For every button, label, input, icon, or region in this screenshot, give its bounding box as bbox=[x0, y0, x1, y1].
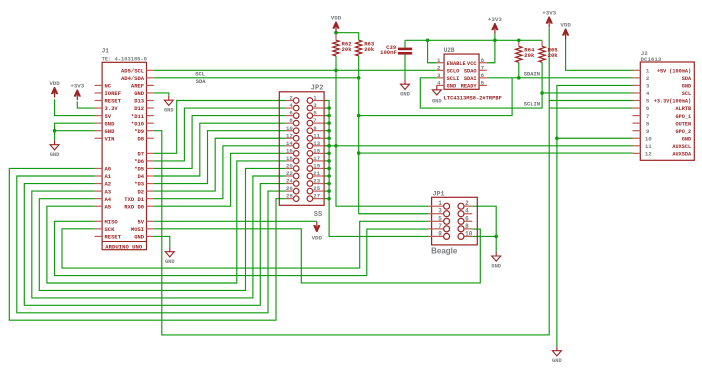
svg-text:AREF: AREF bbox=[131, 83, 144, 90]
svg-text:D7: D7 bbox=[137, 151, 144, 158]
svg-text:SCLIN: SCLIN bbox=[524, 102, 540, 108]
pin J2 3 GND bbox=[633, 84, 641, 86]
pin JP2 28 (left) bbox=[293, 196, 299, 202]
svg-text:DC1613: DC1613 bbox=[641, 56, 662, 63]
svg-text:7: 7 bbox=[438, 223, 442, 230]
svg-text:13: 13 bbox=[313, 140, 320, 147]
wire J1.D4 to JP2 pin8 bbox=[154, 123, 286, 176]
wire +3V3 rail C39 to R65 bbox=[405, 39, 542, 41]
resistor R65 20k bbox=[539, 46, 545, 62]
connector J2 (DC1613) bbox=[640, 62, 694, 160]
junction GND pin10 bbox=[555, 136, 559, 140]
wire J1.D3 to JP2 pin10 bbox=[154, 131, 286, 184]
svg-text:3: 3 bbox=[438, 208, 442, 215]
wire JP2 pin3 to bus bbox=[324, 107, 329, 109]
pin J2 12 AUXSDA bbox=[633, 152, 641, 154]
svg-text:JP2: JP2 bbox=[311, 85, 324, 93]
svg-text:GPO_2: GPO_2 bbox=[676, 129, 692, 135]
svg-text:VDD: VDD bbox=[49, 80, 60, 87]
pin JP2 20 (left) bbox=[293, 166, 299, 172]
svg-text:3: 3 bbox=[646, 83, 650, 90]
svg-text:100nF: 100nF bbox=[380, 49, 397, 56]
pin J1 AREF (right) bbox=[147, 84, 154, 86]
junction VCC rail bbox=[493, 39, 497, 43]
svg-text:VDD: VDD bbox=[560, 22, 571, 29]
svg-text:SCLI: SCLI bbox=[447, 76, 460, 82]
pin J1 MOSI (right) bbox=[147, 228, 154, 230]
wire J1 bottom GND pin to ground bbox=[154, 236, 170, 247]
svg-text:D4: D4 bbox=[137, 173, 144, 180]
wire SCLI loop to R65 bbox=[420, 62, 542, 108]
wire ENABLE to +3V3 bbox=[428, 40, 437, 62]
junction bus row 11 bbox=[327, 136, 331, 140]
wire J1 AREF-side GND pin to ground bbox=[154, 93, 169, 96]
power VDD (J2) bbox=[563, 29, 569, 36]
svg-text:20k: 20k bbox=[364, 46, 375, 53]
wire SCL down to JP1 pin1 bbox=[336, 70, 428, 206]
pin JP2 11 (right) bbox=[307, 135, 313, 141]
pin J1 VIN (left) bbox=[95, 137, 103, 139]
wire JP2 bus to JP1 pin9 bbox=[324, 101, 428, 237]
resistor R62 20k bbox=[333, 40, 339, 56]
ground (U2B pin4) bbox=[436, 85, 438, 89]
wire JP1 pin2 to ground bbox=[472, 206, 496, 251]
pin JP1 1 (left) bbox=[444, 203, 450, 209]
svg-text:AUXSDA: AUXSDA bbox=[672, 152, 692, 158]
svg-text:SDAI: SDAI bbox=[464, 76, 477, 82]
junction SCL / R62 bbox=[334, 69, 338, 73]
svg-text:8: 8 bbox=[289, 117, 293, 124]
svg-text:A1: A1 bbox=[105, 173, 112, 180]
wire net ALRTB J2.pin6 to J1.D9 bbox=[154, 101, 549, 335]
svg-text:22: 22 bbox=[286, 170, 293, 177]
pin J1 A5 (left) bbox=[95, 205, 103, 207]
op-amp/buffer U2B LTC4313 bbox=[444, 54, 479, 89]
pin J1 D4 (right) bbox=[147, 175, 154, 177]
svg-text:*D3: *D3 bbox=[134, 181, 145, 188]
svg-text:ENABLE: ENABLE bbox=[447, 61, 466, 67]
svg-text:14: 14 bbox=[286, 140, 293, 147]
pin J2 5 +3.3V(100mA) bbox=[633, 100, 641, 102]
pin JP2 25 (right) bbox=[307, 188, 313, 194]
pin J1 TXD D1 (right) bbox=[147, 198, 154, 200]
wire net AUXSDA SDA to J2.12 bbox=[359, 152, 633, 154]
svg-text:4: 4 bbox=[465, 208, 469, 215]
connector J1 (Arduino UNO) bbox=[102, 62, 146, 249]
pin JP2 22 (left) bbox=[293, 173, 299, 179]
svg-text:16: 16 bbox=[286, 147, 293, 154]
svg-text:11: 11 bbox=[645, 143, 652, 150]
wire J1.A0 to JP2 pin28 bbox=[9, 168, 286, 320]
pin J2 8 OUTEN bbox=[633, 122, 641, 124]
svg-text:*D5: *D5 bbox=[134, 166, 145, 173]
svg-text:17: 17 bbox=[313, 155, 320, 162]
svg-text:28: 28 bbox=[286, 193, 293, 200]
pin J1 A3 (left) bbox=[95, 190, 103, 192]
pin J1 GND (right) bbox=[147, 92, 154, 94]
pin JP2 15 (right) bbox=[307, 151, 313, 157]
svg-text:SDAO: SDAO bbox=[464, 68, 477, 74]
pin J2 1 +5V (100mA) bbox=[633, 69, 641, 71]
wire SDA down to JP1 pin3 bbox=[359, 78, 429, 214]
svg-text:8: 8 bbox=[481, 57, 485, 64]
pin JP2 5 (right) bbox=[307, 113, 313, 119]
wire JP2 pin17 to bus bbox=[324, 160, 329, 162]
svg-text:26: 26 bbox=[286, 185, 293, 192]
pin JP1 9 (left) bbox=[444, 233, 450, 239]
svg-text:GND: GND bbox=[682, 84, 691, 90]
svg-text:10: 10 bbox=[286, 125, 293, 132]
ground (JP1) bbox=[495, 252, 497, 256]
junction bus row 21 bbox=[327, 174, 331, 178]
svg-text:D2: D2 bbox=[137, 188, 144, 195]
svg-text:9: 9 bbox=[313, 125, 317, 132]
junction SCLIN branch bbox=[540, 91, 544, 95]
svg-text:1: 1 bbox=[438, 200, 442, 207]
pin JP2 1 (right) bbox=[307, 98, 313, 104]
wire C39 bottom to ground bbox=[404, 55, 406, 80]
pin JP2 12 (left) bbox=[293, 135, 299, 141]
pin U2B 8 VCC bbox=[479, 62, 487, 64]
svg-text:VDD: VDD bbox=[331, 15, 342, 22]
svg-text:20k: 20k bbox=[524, 52, 535, 59]
svg-text:A3: A3 bbox=[105, 188, 112, 195]
pin J1 D2 (right) bbox=[147, 190, 154, 192]
pin U2B 1 ENABLE bbox=[437, 62, 444, 64]
svg-text:3.3V: 3.3V bbox=[105, 105, 119, 112]
svg-text:1: 1 bbox=[313, 95, 317, 102]
pin U2B 2 SCLO bbox=[437, 69, 444, 71]
pin JP2 14 (left) bbox=[293, 143, 299, 149]
ground (J1 AREF GND) bbox=[168, 96, 170, 100]
power +3V3 (left) bbox=[74, 90, 80, 97]
svg-text:VDD: VDD bbox=[312, 234, 323, 241]
pin J1 D13 (right) bbox=[147, 100, 154, 102]
junction ENABLE rail bbox=[426, 39, 430, 43]
svg-text:NC: NC bbox=[105, 83, 112, 90]
connector JP2 (SS jumper block) bbox=[279, 92, 324, 206]
svg-text:4: 4 bbox=[646, 90, 650, 97]
junction JP1 GND bbox=[494, 235, 498, 239]
pin J1 A2 (left) bbox=[95, 183, 103, 185]
svg-text:GND: GND bbox=[165, 259, 175, 265]
svg-text:25: 25 bbox=[313, 185, 320, 192]
pin JP2 19 (right) bbox=[307, 166, 313, 172]
pin JP2 16 (left) bbox=[293, 151, 299, 157]
pin JP1 5 (left) bbox=[444, 218, 450, 224]
wire JP2 pin23 to bus bbox=[324, 183, 329, 185]
wire J1.D0 to JP2 pin16 bbox=[154, 153, 286, 206]
svg-text:TXD D1: TXD D1 bbox=[124, 196, 145, 203]
pin U2B 3 SCLI bbox=[437, 77, 444, 79]
svg-text:8: 8 bbox=[465, 223, 469, 230]
svg-text:2: 2 bbox=[465, 200, 469, 207]
svg-text:GND: GND bbox=[447, 84, 457, 90]
svg-text:VIN: VIN bbox=[105, 135, 115, 142]
svg-text:GPO_1: GPO_1 bbox=[676, 114, 692, 120]
svg-text:READY: READY bbox=[461, 84, 478, 90]
pin J1 5V (left) bbox=[95, 115, 103, 117]
wire JP2 pin21 to bus bbox=[324, 175, 329, 177]
pin JP1 8 (right) bbox=[458, 226, 464, 232]
pin J1 AD5/SCL (right) bbox=[147, 69, 154, 71]
svg-text:5: 5 bbox=[481, 80, 485, 87]
wire JP2 pin19 to bus bbox=[324, 167, 329, 169]
svg-text:3: 3 bbox=[437, 72, 441, 79]
svg-text:1: 1 bbox=[646, 68, 650, 75]
pin JP2 9 (right) bbox=[307, 128, 313, 134]
svg-text:SDAIN: SDAIN bbox=[524, 72, 540, 78]
junction bus row 23 bbox=[327, 182, 331, 186]
wire R63 bottom to SDA bbox=[358, 56, 360, 78]
wire J1.SCK to JP1 pin5 bbox=[62, 221, 428, 268]
pin J1 SCK (left) bbox=[95, 228, 103, 230]
wire J1.D6 to JP2 pin4 bbox=[154, 108, 286, 161]
svg-text:*D9: *D9 bbox=[134, 128, 144, 135]
svg-text:20: 20 bbox=[286, 163, 293, 170]
svg-text:8: 8 bbox=[646, 120, 650, 127]
pin J1 RXD D0 (right) bbox=[147, 205, 154, 207]
svg-text:6: 6 bbox=[289, 110, 293, 117]
wire JP2 pin25 to bus bbox=[324, 190, 329, 192]
pin J1 D12 (right) bbox=[147, 107, 154, 109]
svg-text:RESET: RESET bbox=[105, 234, 122, 241]
svg-text:GND: GND bbox=[400, 92, 410, 98]
ground (J2 bottom right) bbox=[556, 346, 558, 350]
svg-text:+3V3: +3V3 bbox=[70, 83, 84, 90]
capacitor C39 100nF bbox=[398, 48, 412, 51]
junction bus row 19 bbox=[327, 167, 331, 171]
wire R64 bottom to SDAIN bbox=[518, 62, 520, 78]
wire J1 GND pins to ground bbox=[55, 123, 95, 131]
wire JP2 pin15 to bus bbox=[324, 152, 329, 154]
wire net ALRTB J2.pin6 bbox=[549, 107, 632, 109]
svg-text:3: 3 bbox=[313, 102, 317, 109]
svg-text:*D11: *D11 bbox=[131, 113, 145, 120]
svg-text:D13: D13 bbox=[134, 98, 145, 105]
svg-text:+3V3: +3V3 bbox=[488, 16, 502, 23]
svg-text:AD4/SDA: AD4/SDA bbox=[121, 75, 145, 82]
svg-text:SCL: SCL bbox=[195, 72, 205, 78]
svg-text:5: 5 bbox=[438, 215, 442, 222]
junction bus row 7 bbox=[327, 121, 331, 125]
svg-text:D8: D8 bbox=[137, 135, 144, 142]
svg-text:6: 6 bbox=[481, 72, 485, 79]
pin JP2 10 (left) bbox=[293, 128, 299, 134]
junction GND left bbox=[53, 129, 57, 133]
svg-text:27: 27 bbox=[313, 193, 320, 200]
wire JP2 pin7 to bus bbox=[324, 122, 329, 124]
pin U2B 6 SDAI bbox=[479, 77, 487, 79]
svg-text:ARDUINO UNO: ARDUINO UNO bbox=[105, 243, 143, 250]
svg-text:7: 7 bbox=[646, 113, 650, 120]
svg-text:GND: GND bbox=[682, 136, 691, 142]
svg-text:AD5/SCL: AD5/SCL bbox=[121, 68, 145, 75]
junction bus row 17 bbox=[327, 159, 331, 163]
pin J1 *D11 (right) bbox=[147, 115, 154, 117]
wire net SCLIN to J2.SCL bbox=[542, 92, 632, 94]
junction SDA branch y115 bbox=[357, 114, 361, 118]
junction bus row 25 bbox=[327, 189, 331, 193]
svg-text:SCL: SCL bbox=[682, 91, 691, 97]
wire J1.D2 to JP2 pin12 bbox=[154, 138, 286, 191]
wire JP2 pin5 to bus bbox=[324, 115, 329, 117]
pin J2 7 GPO_1 bbox=[633, 115, 641, 117]
svg-text:GND: GND bbox=[105, 120, 116, 127]
pin J1 GND (left) bbox=[95, 130, 103, 132]
power VDD (left) bbox=[51, 87, 57, 94]
junction bus row 15 bbox=[327, 152, 331, 156]
svg-text:U2B: U2B bbox=[444, 47, 455, 54]
svg-text:A4: A4 bbox=[105, 196, 112, 203]
pin JP1 6 (right) bbox=[458, 218, 464, 224]
wire VDD to J2 pin1 bbox=[566, 38, 633, 71]
wire net SCL J1.AD5 to U2B.SCLO bbox=[154, 69, 437, 71]
svg-text:VCC: VCC bbox=[467, 61, 477, 67]
svg-text:MISO: MISO bbox=[105, 219, 119, 226]
svg-text:A5: A5 bbox=[105, 203, 112, 210]
wire MOSI to JP1 pin8 bbox=[154, 229, 481, 283]
svg-text:TE: 4-103185-0: TE: 4-103185-0 bbox=[102, 57, 147, 63]
svg-text:SCLO: SCLO bbox=[447, 68, 460, 74]
svg-text:24: 24 bbox=[286, 178, 293, 185]
junction SDA / AUXSDA bbox=[357, 151, 361, 155]
svg-text:2: 2 bbox=[646, 75, 650, 82]
svg-text:20k: 20k bbox=[548, 52, 559, 59]
svg-text:A2: A2 bbox=[105, 181, 112, 188]
pin J1 *D10 (right) bbox=[147, 122, 154, 124]
svg-text:AUXSCL: AUXSCL bbox=[672, 144, 691, 150]
pin J1 GND (right) bbox=[147, 235, 154, 237]
svg-text:SDA: SDA bbox=[682, 76, 692, 82]
pin JP2 13 (right) bbox=[307, 143, 313, 149]
svg-text:Beagle: Beagle bbox=[431, 247, 458, 256]
junction AUXSCL bus bbox=[327, 144, 331, 148]
wire J2 GND to ground bbox=[557, 85, 633, 346]
junction VDD rail bbox=[334, 31, 338, 35]
svg-text:D12: D12 bbox=[134, 105, 144, 112]
pin J2 2 SDA bbox=[633, 77, 641, 79]
pin J2 11 AUXSCL bbox=[633, 145, 641, 147]
pin J1 *D9 (right) bbox=[147, 130, 154, 132]
svg-text:A0: A0 bbox=[105, 166, 112, 173]
svg-text:9: 9 bbox=[438, 230, 442, 237]
resistor R63 20k bbox=[356, 40, 362, 56]
wire VDD stem bbox=[335, 31, 337, 33]
power VDD (below SS) bbox=[314, 225, 320, 232]
pin JP1 10 (right) bbox=[458, 233, 464, 239]
pin JP2 4 (left) bbox=[293, 105, 299, 111]
wire JP2 pin27 to bus bbox=[324, 198, 329, 200]
junction bus row 3 bbox=[327, 106, 331, 110]
pin J1 RESET (left) bbox=[95, 235, 103, 237]
pin JP2 8 (left) bbox=[293, 120, 299, 126]
wire +3V3 to J1 3.3V pin bbox=[77, 101, 94, 108]
svg-text:*D10: *D10 bbox=[131, 120, 144, 127]
pin J1 AD4/SDA (right) bbox=[147, 77, 154, 79]
ground (J1 left) bbox=[54, 140, 56, 144]
connector JP1 (Beagle) bbox=[432, 197, 478, 245]
svg-text:OUTEN: OUTEN bbox=[676, 121, 692, 127]
wire JP2 pin11 to bus bbox=[324, 137, 329, 139]
pin J1 5V (right) bbox=[147, 220, 154, 222]
pin JP2 6 (left) bbox=[293, 113, 299, 119]
svg-text:2: 2 bbox=[437, 65, 441, 72]
svg-text:23: 23 bbox=[313, 178, 320, 185]
pin JP2 3 (right) bbox=[307, 105, 313, 111]
wire J1.A2 to JP2 pin24 bbox=[24, 184, 286, 306]
svg-text:12: 12 bbox=[645, 151, 652, 158]
svg-text:6: 6 bbox=[465, 215, 469, 222]
wire JP1 pin10 to ground bbox=[472, 235, 496, 237]
wire J1 5V to VDD bbox=[154, 220, 317, 222]
svg-text:SS: SS bbox=[314, 211, 322, 219]
pin J1 A1 (left) bbox=[95, 175, 103, 177]
pin JP1 4 (right) bbox=[458, 211, 464, 217]
stub R62 top bbox=[335, 33, 337, 41]
svg-text:6: 6 bbox=[646, 105, 650, 112]
svg-text:20k: 20k bbox=[342, 46, 353, 53]
svg-text:7: 7 bbox=[313, 117, 317, 124]
pin J2 9 GPO_2 bbox=[633, 130, 641, 132]
wire J1.A4 to JP2 pin20 bbox=[39, 168, 285, 290]
wire net AUXSCL JP2.13 to J2.11 bbox=[324, 145, 632, 147]
svg-text:SCK: SCK bbox=[105, 226, 116, 233]
resistor R64 20k bbox=[516, 46, 522, 62]
svg-text:21: 21 bbox=[313, 170, 320, 177]
svg-text:9: 9 bbox=[646, 128, 650, 135]
junction R64 rail bbox=[517, 39, 521, 43]
pin J1 A4 (left) bbox=[95, 198, 103, 200]
power +3V3 (J2) bbox=[546, 17, 552, 24]
svg-text:JP1: JP1 bbox=[433, 190, 445, 197]
wire C39 top bbox=[404, 40, 406, 47]
wire J1.A1 to JP2 pin26 bbox=[17, 176, 286, 313]
wire J1.D5 to JP2 pin6 bbox=[154, 116, 286, 169]
junction bus row 5 bbox=[327, 114, 331, 118]
svg-text:RESET: RESET bbox=[105, 98, 122, 105]
pin J1 NC (left) bbox=[95, 84, 103, 86]
power VDD (top R62/R63) bbox=[333, 22, 339, 29]
svg-text:4: 4 bbox=[289, 102, 293, 109]
pin J2 10 GND bbox=[633, 137, 641, 139]
wire SDA to SDAIN riser bbox=[359, 78, 512, 116]
pin J1 *D5 (right) bbox=[147, 167, 154, 169]
pin JP2 17 (right) bbox=[307, 158, 313, 164]
pin J2 6 ALRTB bbox=[633, 107, 641, 109]
pin JP1 7 (left) bbox=[444, 226, 450, 232]
svg-text:LTC4313MS8-2#TRPBF: LTC4313MS8-2#TRPBF bbox=[444, 96, 502, 102]
svg-text:19: 19 bbox=[313, 163, 320, 170]
junction SDA / R63 bbox=[357, 76, 361, 80]
wire J1.D1 to JP2 pin14 bbox=[154, 146, 286, 199]
pin JP2 24 (left) bbox=[293, 181, 299, 187]
pin J1 D8 (right) bbox=[147, 137, 154, 139]
svg-text:7: 7 bbox=[481, 65, 485, 72]
power +3V3 (U2B VCC) bbox=[492, 23, 498, 30]
svg-text:5V: 5V bbox=[105, 113, 112, 120]
svg-text:12: 12 bbox=[286, 132, 293, 139]
svg-text:J1: J1 bbox=[102, 48, 110, 55]
junction bus row 9 bbox=[327, 129, 331, 133]
wire J1.A5 to JP2 pin18 bbox=[47, 161, 286, 283]
wire net SDAIN U2B.SDAI to J2.SDA bbox=[487, 77, 633, 79]
junction bus row 13 bbox=[327, 144, 331, 148]
wire VDD to R63 top bbox=[336, 33, 359, 41]
svg-text:*D6: *D6 bbox=[134, 158, 144, 165]
wire ground drop bbox=[54, 131, 56, 141]
pin J1 GND (left) bbox=[95, 122, 103, 124]
